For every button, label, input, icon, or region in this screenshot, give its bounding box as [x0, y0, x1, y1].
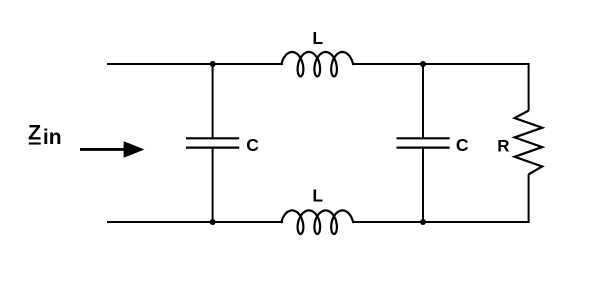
wire: top rail left segment — [107, 63, 283, 65]
svg-text:L: L — [312, 28, 323, 48]
resistor R zigzag — [515, 111, 543, 175]
wire: right vertical upper segment — [528, 64, 530, 111]
capacitor C2 plates — [397, 137, 450, 139]
arrow: input direction — [80, 148, 125, 151]
svg-text:R: R — [497, 136, 509, 155]
capacitor C2 lower lead wire — [422, 148, 424, 222]
inductor L1 (top) — [281, 52, 353, 76]
svg-text:C: C — [456, 135, 469, 155]
wire: top rail right segment — [352, 63, 529, 65]
node: junction dot bottom-left (C1/bottom rail) — [210, 219, 216, 225]
svg-text:L: L — [312, 186, 323, 206]
svg-text:Z: Z — [28, 121, 41, 145]
wire: right vertical lower segment — [528, 174, 530, 222]
capacitor C1 plates — [186, 137, 239, 139]
node: junction dot top-right (C2/top rail) — [420, 61, 426, 67]
Zin underline — [29, 142, 41, 144]
inductor L2 (bottom) — [281, 210, 353, 234]
wire: bottom rail right segment — [352, 221, 529, 223]
wire: bottom rail left segment — [107, 221, 283, 223]
capacitor C2 upper lead wire — [422, 64, 424, 138]
node: junction dot top-left (C1/top rail) — [210, 61, 216, 67]
svg-text:in: in — [43, 126, 62, 149]
node: junction dot bottom-right (C2/bottom rail) — [420, 219, 426, 225]
capacitor C1 lower lead wire — [212, 148, 214, 222]
capacitor C1 upper lead wire — [212, 64, 214, 138]
svg-text:C: C — [246, 135, 259, 155]
